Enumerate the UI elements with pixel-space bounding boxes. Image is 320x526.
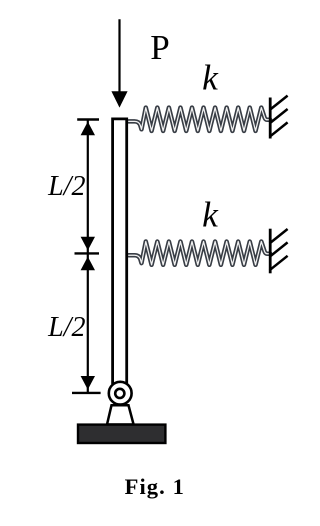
column (vertical bar) [113,119,127,384]
svg-text:Fig. 1: Fig. 1 [125,474,185,499]
wall hatch 6 [270,256,288,270]
dim arrowhead up (below middle tick) [81,257,95,271]
wall hatch 5 [270,242,288,256]
svg-text:k: k [202,195,219,235]
spring k1 (top) outer dark coil [129,108,271,131]
svg-text:L/2: L/2 [47,312,85,343]
dimension tick middle [75,252,100,254]
dimension tick bottom [72,392,101,394]
dimension tick top [77,118,99,120]
wall (middle spring anchor) vertical line [269,229,272,274]
svg-text:P: P [150,28,169,67]
wall hatch 2 [270,109,288,123]
ground block [78,425,165,443]
dim arrowhead down (above middle tick) [81,237,95,251]
dim arrowhead up (below top tick) [81,122,95,136]
load arrow P head [111,91,127,107]
pin outer circle [109,382,132,405]
load arrow P stem [118,19,120,92]
wall hatch 1 [270,96,288,110]
pin support base trapezoid [107,405,134,424]
dimension vertical line [87,120,89,393]
svg-text:L/2: L/2 [47,171,85,202]
spring k1 (top) inner light line [129,108,271,131]
spring k2 (middle) inner light line [129,242,271,265]
wall hatch 4 [270,229,288,243]
wall hatch 3 [270,122,288,136]
spring k2 (middle) outer dark coil [129,242,271,265]
dim arrowhead down (above bottom tick) [81,376,95,390]
pin inner circle [115,389,124,398]
svg-text:k: k [202,57,219,97]
wall (top spring anchor) vertical line [269,98,272,139]
